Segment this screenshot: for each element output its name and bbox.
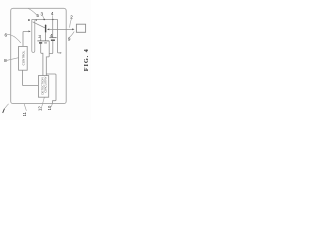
cell A short plate left [39,42,42,44]
svg-text:9: 9 [68,37,71,42]
wire branch right to case [46,74,56,104]
label 2 leader [70,19,72,28]
arrow at switch wire [28,31,30,33]
svg-text:3: 3 [38,34,41,39]
label 10 leader [51,104,52,107]
wire control box bottom to monitor box [23,70,39,85]
label 11 leader [24,104,26,111]
wire arrow horizontal to border [49,28,73,30]
svg-text:CONTROL: CONTROL [22,50,26,65]
switch fixed contact post [35,19,37,21]
node top rail [32,18,58,20]
switch contact bar [45,25,46,32]
svg-text:11: 11 [22,111,27,116]
output arrowhead [60,52,62,54]
cell A wire tick [40,38,42,41]
cell B wire from rail [52,19,54,37]
junction dot A on rail [43,19,45,21]
external box (charger/load) [76,24,85,32]
label 1 [3,109,5,113]
label 1 leader [5,104,9,108]
label 6 leader [7,34,21,43]
label 9 leader [69,32,74,38]
svg-text:2: 2 [70,15,73,20]
svg-text:6: 6 [5,32,8,37]
wire right vertical from rail with output arrow [58,19,61,53]
switch lever [33,22,45,28]
label 8 leader [7,58,19,61]
wire sense from plate A right end down [46,41,49,76]
control box (left) [19,46,28,70]
label 5 leader to border [28,8,36,14]
cell A short plate right [44,42,47,44]
rail left end blob [28,19,29,21]
wire cell B tap [49,41,52,54]
enclosure border (battery pack outline) [11,8,66,103]
svg-text:12: 12 [37,106,42,111]
svg-text:FIG. 4: FIG. 4 [83,48,90,71]
junction dot B on rail [52,19,54,21]
monitor box [38,76,48,98]
wire from contact bar down [45,32,47,40]
arrow pointing right into external box [72,28,74,30]
wire cell A down to monitor [41,44,43,76]
cell B short plate [51,39,55,41]
wire control box to switch with arrow [23,31,28,46]
svg-text:5: 5 [36,13,39,18]
label 3 leader [43,16,44,19]
svg-text:4: 4 [51,11,54,16]
svg-text:4: 4 [50,33,53,38]
svg-text:CIRCUITRY: CIRCUITRY [44,76,48,92]
cell A long plate [37,40,49,42]
label 4 leader [52,15,54,18]
svg-text:3: 3 [41,11,44,16]
arrow pointing left at contact bar [47,29,49,31]
svg-text:10: 10 [47,105,52,110]
wire left vertical with U bottom [32,19,35,52]
label 12 leader [42,97,44,106]
cell B long plate [49,37,56,39]
contact bar knob [45,25,47,27]
